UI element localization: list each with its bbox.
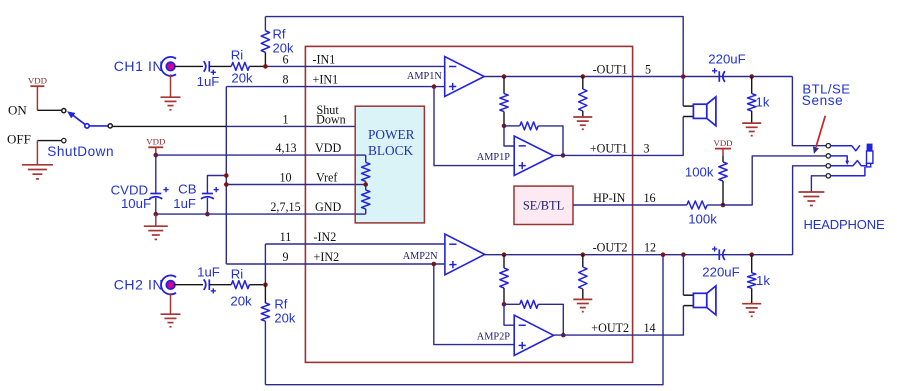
capacitor CVDD 10uF (155, 155, 157, 193)
svg-text:VDD: VDD (713, 138, 732, 148)
jack J3 ring spring (830, 161, 866, 166)
junction node +IN1 branch (432, 84, 437, 89)
junction node CVDD/GND (154, 212, 159, 217)
capacitor 220uF (CH2) (718, 249, 720, 260)
resistor Rf (CH1) 20k (264, 17, 266, 31)
ground -OUT1 resistor (573, 116, 592, 118)
svg-text:10: 10 (279, 171, 291, 185)
wire pivot to common (89, 125, 108, 127)
svg-text:+OUT1: +OUT1 (590, 141, 628, 155)
jack J3 sleeve connection (830, 167, 865, 176)
wire connector to C2 (174, 284, 203, 286)
wire ON to switch contact (37, 109, 61, 111)
wire +IN1 to AMP1P (434, 87, 514, 166)
junction node power-block divider (363, 182, 368, 187)
wire -IN1 pin 6 (263, 65, 445, 67)
svg-text:AMP1P: AMP1P (477, 152, 510, 163)
resistor AMP2P input (503, 255, 505, 268)
wire AMP1P -input (504, 126, 514, 146)
svg-text:GND: GND (315, 200, 341, 214)
resistor 100k series (687, 201, 707, 209)
svg-text:6: 6 (282, 52, 288, 66)
junction node -IN2/Ri/Rf (263, 282, 268, 287)
svg-text:20k: 20k (230, 294, 252, 309)
svg-text:10uF: 10uF (121, 196, 151, 211)
wire Vref pin 10 (226, 184, 365, 186)
svg-text:+IN1: +IN1 (313, 73, 339, 87)
op-amp AMP1P (514, 136, 553, 176)
capacitor CB 1uF (207, 176, 226, 193)
wire GND pin 2,7,15 (156, 213, 366, 215)
svg-text:-IN1: -IN1 (313, 52, 336, 66)
wire OFF contact (37, 140, 61, 142)
svg-text:+IN2: +IN2 (314, 250, 340, 264)
switch SW1 common contact (108, 124, 112, 128)
resistor 1k (CH1) (751, 77, 753, 94)
svg-text:ShutDown: ShutDown (47, 144, 114, 159)
connector J2 CH2 IN (161, 275, 176, 294)
wire -OUT1 pin 5 (484, 76, 632, 78)
wire connector to C1 (174, 65, 203, 67)
wire -IN2 pin 11 (265, 243, 445, 245)
block SE/BTL (514, 186, 573, 224)
svg-text:100k: 100k (688, 211, 717, 226)
jack J3 contact 4 (826, 174, 830, 178)
block POWER BLOCK (355, 106, 424, 223)
svg-text:3: 3 (643, 141, 649, 155)
svg-text:1uF: 1uF (197, 74, 220, 89)
wire C2 to Ri CH2 (209, 284, 231, 286)
svg-text:-IN2: -IN2 (314, 230, 337, 244)
svg-text:+OUT2: +OUT2 (591, 321, 629, 335)
resistor power-block lower (365, 185, 367, 191)
capacitor C2 1uF (CH2) (208, 279, 210, 290)
svg-text:14: 14 (643, 321, 655, 335)
resistor -OUT2 to ground (582, 255, 584, 267)
wire jack sleeve to ground (811, 176, 826, 192)
svg-text:9: 9 (282, 250, 288, 264)
jack J3 contact 2 (826, 154, 830, 158)
wire vertical +IN1/+IN2 to bypass node (225, 87, 227, 264)
svg-text:1k: 1k (756, 95, 770, 110)
svg-text:HEADPHONE: HEADPHONE (804, 217, 885, 232)
jack J3 tip spring (830, 145, 860, 151)
jack J3 contact 3 (826, 164, 830, 168)
svg-text:1uF: 1uF (173, 196, 196, 211)
junction node -IN1/Ri/Rf (263, 64, 268, 69)
svg-text:1k: 1k (756, 273, 770, 288)
svg-text:-OUT2: -OUT2 (593, 241, 628, 255)
wire +OUT1 pin 3 (554, 154, 633, 156)
jack J3 contact 1 (826, 144, 830, 148)
junction node HP sense (721, 203, 726, 208)
svg-text:VDD: VDD (315, 141, 341, 155)
ground -OUT2 resistor (573, 298, 592, 300)
switch SW1 arm (73, 115, 87, 126)
ground headphone jack (798, 191, 824, 193)
junction node AMP2P output (561, 333, 566, 338)
speaker LS1 (CH1) (683, 105, 693, 107)
resistor Rf (CH2) 20k (264, 285, 266, 303)
wire +IN2 to AMP2P (434, 264, 514, 345)
svg-text:CH2 IN: CH2 IN (114, 276, 164, 292)
resistor AMP2P feedback (504, 303, 520, 305)
junction node feedback AMP1P (502, 124, 507, 129)
svg-text:1uF: 1uF (197, 265, 220, 280)
wire +OUT2 pin 14 (554, 334, 633, 336)
junction node CB top (224, 173, 229, 178)
resistor AMP1P input (503, 77, 505, 94)
switch SW1 contact OFF (62, 138, 66, 142)
ground OFF (22, 164, 53, 166)
svg-text:16: 16 (643, 191, 655, 205)
wire -OUT1 to jack tip (792, 77, 826, 146)
capacitor 220uF (CH1) (718, 71, 720, 82)
jack J3 sense wiper (830, 156, 847, 162)
junction node +IN2 branch (432, 262, 437, 267)
svg-text:POWER: POWER (368, 127, 415, 142)
svg-text:VDD: VDD (28, 76, 47, 86)
svg-text:5: 5 (645, 63, 651, 77)
junction node Vref (224, 182, 229, 187)
resistor Ri (CH1) 20k (231, 62, 249, 70)
wire HP-IN pin 16 (573, 204, 687, 206)
svg-text:Ri: Ri (231, 267, 244, 282)
wire VDD inside power block (355, 154, 366, 156)
svg-text:BLOCK: BLOCK (368, 143, 413, 158)
IC boundary U1 (305, 46, 632, 362)
svg-text:Down: Down (316, 112, 346, 126)
svg-text:SE/BTL: SE/BTL (523, 199, 564, 213)
svg-text:4,13: 4,13 (275, 141, 296, 155)
ground 1k CH1 (742, 122, 761, 124)
svg-text:220uF: 220uF (702, 265, 739, 280)
callout arrow BTL/SE sense (816, 116, 825, 147)
wire -OUT2 to speaker CH2 (682, 255, 684, 296)
ground 1k CH2 (742, 303, 761, 305)
wire GND inside power block (355, 213, 366, 215)
wire sense to jack (723, 156, 826, 205)
switch SW1 pivot (85, 124, 89, 128)
junction node CB/GND (205, 212, 210, 217)
svg-text:Ri: Ri (231, 48, 244, 63)
junction node VDD (154, 153, 159, 158)
svg-text:20k: 20k (231, 71, 253, 86)
svg-text:AMP1N: AMP1N (407, 71, 442, 82)
wire +IN2 pin 9 (226, 263, 445, 265)
svg-text:20k: 20k (274, 311, 295, 326)
ground CVDD (155, 214, 157, 226)
wire Vref inside power block (355, 184, 366, 186)
svg-text:1: 1 (282, 112, 288, 126)
junction nodes on -OUT2 (502, 252, 507, 257)
resistor AMP1P feedback (504, 125, 520, 127)
wire +IN1 pin 8 (226, 86, 444, 88)
wire CH1 feedback -IN1 to -OUT1 (265, 17, 683, 77)
op-amp AMP1N (445, 57, 485, 97)
op-amp AMP2N (445, 234, 485, 275)
svg-text:Sense: Sense (802, 93, 844, 108)
junction nodes on -OUT1 (502, 74, 507, 79)
svg-text:Vref: Vref (316, 171, 338, 185)
wire -OUT1 to speaker CH1 (682, 77, 684, 107)
resistor Ri (CH2) 20k (231, 281, 249, 289)
wire CH2 feedback bottom (265, 255, 663, 385)
capacitor C1 1uF (CH1) (208, 61, 210, 72)
speaker LS2 (CH2) (683, 294, 693, 296)
wire VDD pin 4,13 (156, 154, 366, 156)
resistor 100k pull-up (719, 162, 727, 181)
op-amp AMP2P (514, 315, 553, 355)
switch SW1 contact ON (62, 109, 66, 113)
svg-text:HP-IN: HP-IN (593, 191, 626, 205)
junction node AMP1P output (561, 153, 566, 158)
wire AMP2P -input (504, 304, 514, 325)
wire -OUT2 pin 12 (485, 254, 633, 256)
svg-text:CH1 IN: CH1 IN (114, 58, 164, 74)
junction node feedback AMP2P (502, 302, 507, 307)
resistor power-block upper (365, 155, 367, 162)
wire C1 to Ri (209, 65, 231, 67)
ground CH2 connector (170, 293, 172, 314)
svg-text:2,7,15: 2,7,15 (270, 200, 300, 214)
svg-text:CB: CB (178, 181, 197, 196)
wire -OUT2 to jack ring (793, 166, 827, 255)
svg-text:ON: ON (8, 102, 27, 117)
jack J3 plug body (867, 144, 873, 151)
svg-text:220uF: 220uF (708, 51, 745, 66)
svg-text:Rf: Rf (274, 297, 287, 312)
svg-text:-OUT1: -OUT1 (593, 63, 628, 77)
svg-text:VDD: VDD (146, 137, 165, 147)
resistor -OUT1 to ground (582, 77, 584, 90)
wire shutdown pin 1 (112, 125, 226, 127)
svg-text:11: 11 (280, 230, 292, 244)
svg-text:OFF: OFF (7, 132, 31, 147)
connector J1 CH1 IN (161, 57, 176, 76)
ground CH1 connector (170, 74, 172, 97)
resistor 1k (CH2) (751, 255, 753, 273)
svg-text:12: 12 (644, 241, 656, 255)
svg-text:8: 8 (282, 73, 288, 87)
svg-text:100k: 100k (685, 165, 714, 180)
svg-text:AMP2P: AMP2P (477, 332, 510, 343)
svg-text:AMP2N: AMP2N (403, 251, 438, 262)
svg-text:Rf: Rf (273, 26, 286, 41)
